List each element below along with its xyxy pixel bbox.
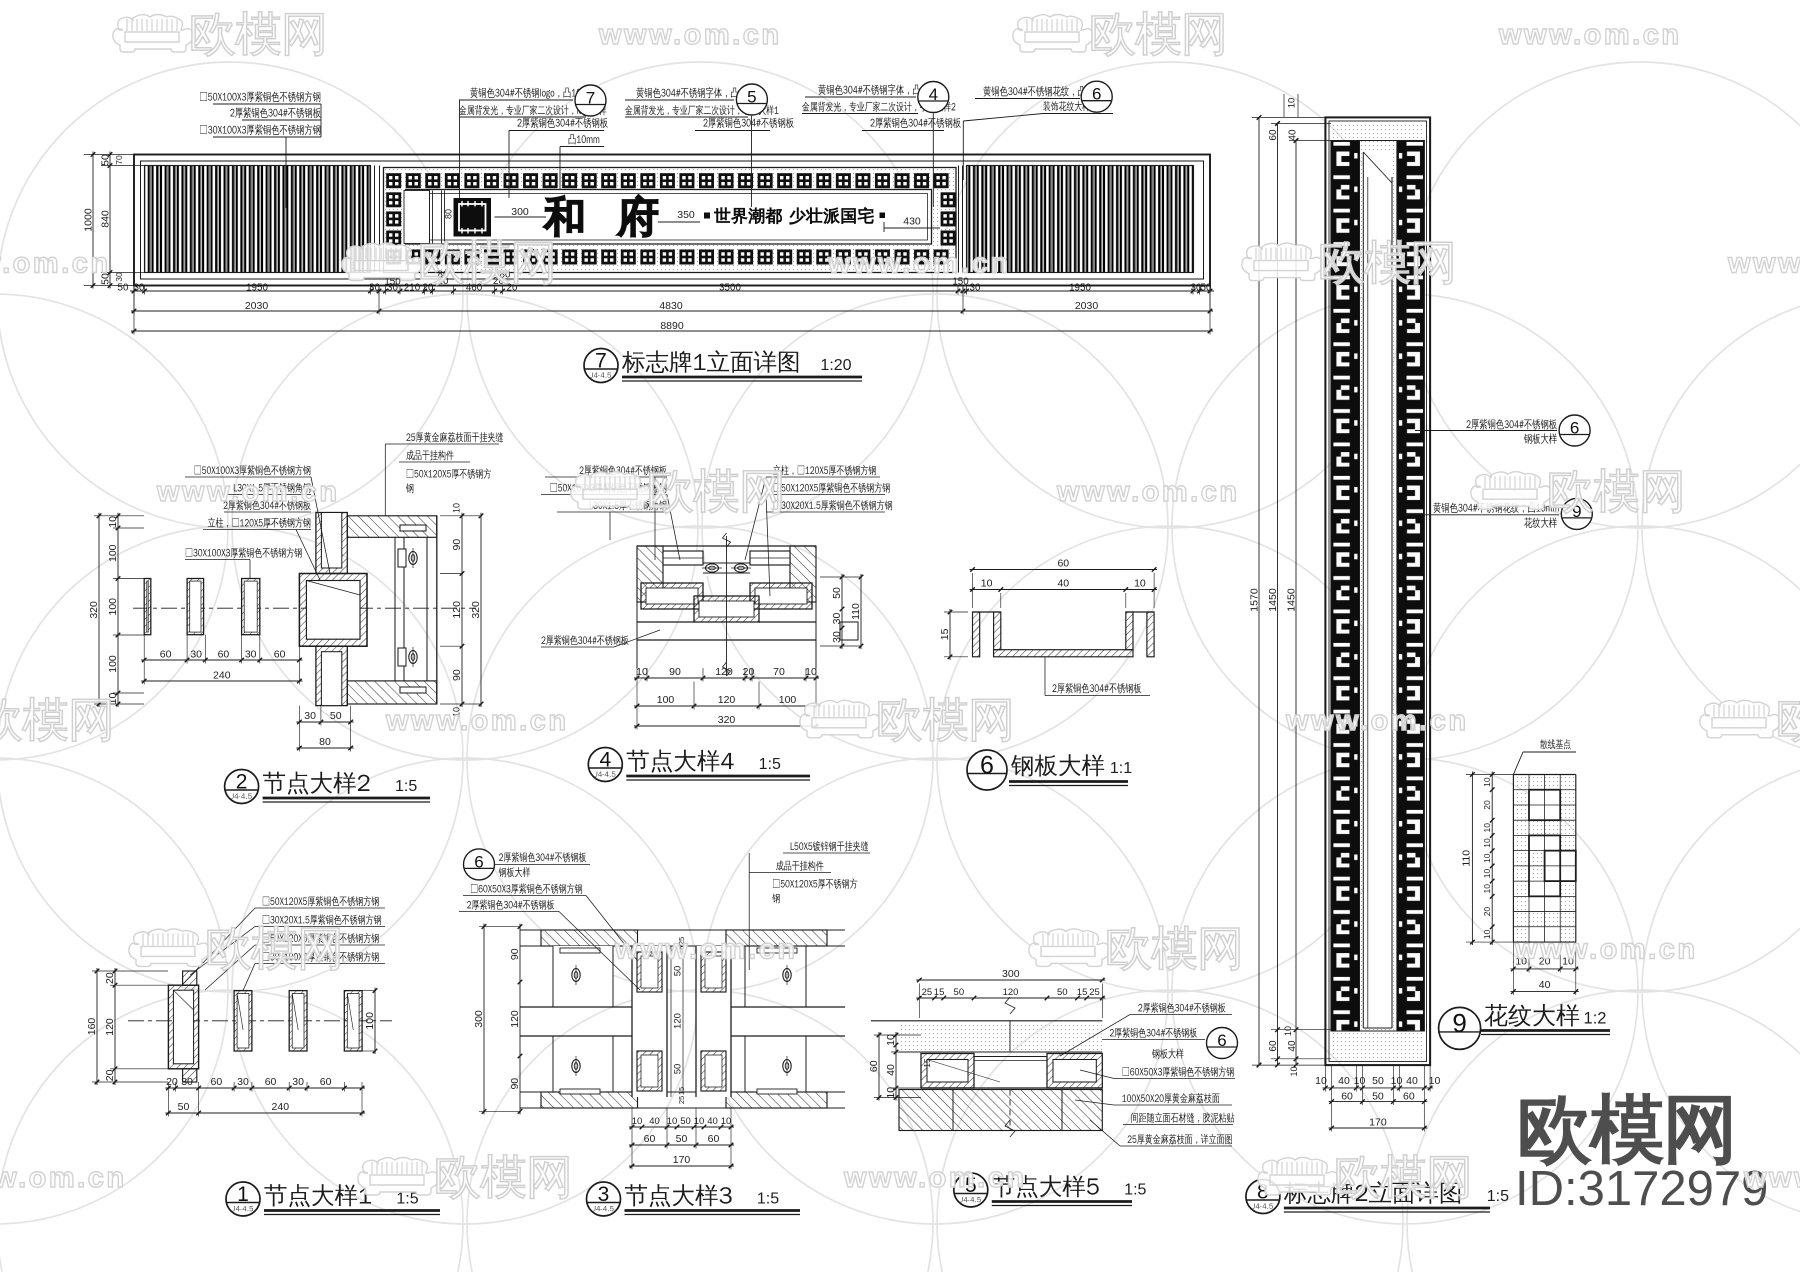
sign1 logo plate (black square with maze) [454,198,492,237]
svg-text:30: 30 [134,283,145,294]
sign1 motif column left [386,192,401,207]
svg-text:120: 120 [672,1013,683,1029]
steel plate label [1044,657,1046,696]
svg-text:60: 60 [1268,1040,1279,1052]
svg-text:300: 300 [1002,968,1020,980]
steel plate profile [973,611,1001,613]
detail5 stone base [899,1090,1102,1131]
detail4 callouts left [580,465,667,476]
svg-text:110: 110 [850,603,862,620]
dim 430 [883,222,885,232]
sign2 fret strip right [1397,141,1425,1032]
svg-text:15: 15 [939,628,951,640]
svg-text:www.om.cn: www.om.cn [0,1162,127,1194]
title block 3 [587,1182,621,1216]
detail2 upper channel [316,513,347,574]
title block 7: sign1 elevation [584,349,618,383]
callout bubble 4 [918,82,949,113]
leader group 4 [932,114,934,208]
detail4 wall right [790,546,816,602]
svg-text:www.om.cn: www.om.cn [1727,248,1800,280]
detail5 stone top band [871,1020,1102,1022]
svg-text:50: 50 [831,587,843,599]
dim 300 between logo and characters [495,216,547,218]
svg-text:www.om.cn: www.om.cn [385,705,569,737]
svg-text:10: 10 [981,578,993,590]
title block 9: ornament detail [1439,1007,1481,1049]
watermark sofa-logo row 1 [1242,243,1322,281]
svg-text:50: 50 [100,154,112,166]
svg-text:60: 60 [708,1133,720,1145]
svg-text:6: 6 [1217,1031,1226,1050]
watermark sofa-logo row 4 [129,929,209,967]
detail3 mid beams [520,1006,632,1008]
svg-text:15: 15 [677,1087,686,1095]
detail3 right channel column [696,946,731,1097]
svg-text:10: 10 [1283,1026,1293,1036]
detail2 stone wall top [347,516,437,538]
svg-text:320: 320 [470,601,482,619]
detail5 break marks [1005,997,1015,1014]
svg-text:10: 10 [1134,578,1146,590]
svg-text:240: 240 [213,670,231,682]
callout group 7 (logo) [470,87,594,98]
svg-text:320: 320 [718,714,736,726]
svg-text:10: 10 [667,1116,678,1127]
detail4 right channel [750,583,812,609]
svg-text:1:5: 1:5 [1124,1182,1146,1199]
sign2 bottom cap stipple [1331,1031,1425,1059]
svg-text:6: 6 [1570,418,1579,437]
svg-text:50: 50 [178,1101,190,1113]
svg-text:20: 20 [166,1076,178,1088]
detail4 horizontal bolts [702,560,722,576]
svg-text:20: 20 [104,972,116,984]
svg-text:50: 50 [1372,1091,1384,1103]
callout group 4 (font2) [818,84,944,95]
detail2 hanger bolts [405,548,421,568]
svg-text:10: 10 [721,1116,732,1127]
sign1 motif row top [386,173,401,188]
title block 8: sign2 elevation [1246,1180,1280,1214]
svg-text:50: 50 [676,1133,688,1145]
svg-text:30: 30 [190,649,202,661]
detail3 bottom dims [629,1126,734,1128]
svg-text:15: 15 [1077,987,1088,998]
svg-text:60: 60 [1341,1091,1353,1103]
svg-text:6: 6 [474,852,483,871]
svg-text:80: 80 [444,209,454,219]
svg-text:120: 120 [715,666,733,678]
title block 5 [954,1173,988,1207]
svg-text:60: 60 [265,1076,277,1088]
svg-text:4830: 4830 [659,300,683,312]
detail2 right dim chain [461,513,463,707]
svg-text:1:5: 1:5 [757,1191,779,1208]
svg-text:100: 100 [657,694,675,706]
detail5 metal assembly [921,1054,974,1089]
svg-text:www.om.cn: www.om.cn [156,476,340,508]
svg-text:120: 120 [509,1010,521,1028]
detail2 wall verticals [394,537,396,681]
svg-text:25: 25 [922,987,933,998]
svg-text:10: 10 [885,1087,897,1099]
detail2 bottom dim chain [141,659,302,661]
svg-text:15: 15 [922,1058,932,1068]
watermark sofa-logo row 1 [342,243,422,281]
dim 350 [658,221,700,223]
sign1 motif row bottom [386,250,401,265]
detail1 bottom dims [165,1087,365,1089]
svg-text:1:20: 1:20 [820,357,851,374]
svg-text:5: 5 [747,87,756,106]
detail4 center plate [694,596,759,622]
watermark sofa-logo row 2 [1471,472,1551,510]
svg-text:60: 60 [1057,558,1069,570]
svg-text:3: 3 [598,1183,610,1206]
ornament grid heavy outlines [1529,790,1560,820]
svg-text:1:5: 1:5 [1487,1188,1509,1205]
watermark sofa-logo row 3 [1700,700,1780,738]
callout group 5 (font1) [636,87,762,98]
watermark sofa-logo row 4 [1029,929,1109,967]
detail3 bolts [568,965,584,985]
svg-text:40: 40 [1539,979,1551,991]
svg-text:15: 15 [934,987,945,998]
svg-text:3500: 3500 [719,283,741,294]
sign2 bottom dimension rows [1322,1087,1433,1089]
svg-text:80: 80 [319,736,331,748]
detail1 main post [168,985,198,1069]
svg-text:10: 10 [805,666,817,678]
sign1 character 和 [544,196,582,236]
sign1 central decorated band [384,168,957,273]
svg-text:1950: 1950 [1069,283,1091,294]
svg-text:10: 10 [1482,929,1492,939]
svg-text:40: 40 [1406,1075,1418,1087]
sign1 dimension row 2 [131,310,1213,312]
svg-text:50: 50 [954,987,965,998]
detail1 battens [234,991,252,1051]
svg-text:10: 10 [885,1034,897,1046]
svg-text:6: 6 [980,751,994,779]
svg-text:10: 10 [1482,823,1492,833]
svg-text:www.om.cn: www.om.cn [614,933,798,965]
svg-text:70: 70 [773,666,785,678]
sign1 extension lines below [133,286,135,295]
svg-text:www.om.cn: www.om.cn [1056,476,1240,508]
svg-text:120: 120 [451,601,463,619]
svg-text:100: 100 [107,598,119,616]
sign2 column outer frame [1325,117,1430,1065]
detail2 stone wall bottom [347,681,437,704]
svg-text:40: 40 [649,1116,660,1127]
ornament pattern grid [1513,775,1575,943]
svg-text:120: 120 [1003,987,1019,998]
svg-text:10: 10 [1429,1075,1441,1087]
site logo text [1522,1094,1730,1165]
sign1 slogan text [714,208,781,224]
ornament grid label [1540,739,1571,749]
svg-text:9: 9 [1452,1008,1466,1038]
sign2 left dimension lines [1258,117,1260,1065]
svg-text:60: 60 [320,1076,332,1088]
sign1 panel divider lines [374,166,376,273]
svg-text:840: 840 [100,210,112,228]
leaders group 7 [459,100,461,198]
svg-text:50: 50 [672,1064,683,1075]
svg-text:170: 170 [1369,1117,1387,1129]
svg-text:40: 40 [1287,1040,1298,1052]
title block 1 [226,1182,260,1216]
leader group 6 [963,114,1043,122]
svg-text:160: 160 [86,1018,98,1036]
svg-text:10: 10 [452,503,462,513]
sign1 dimension row 3 [131,330,1213,332]
svg-text:60: 60 [160,649,172,661]
svg-text:170: 170 [673,1154,691,1166]
sign1 inner field frame [406,190,932,245]
detail1 callouts [263,896,379,907]
svg-text:www.om.cn: www.om.cn [1514,933,1698,965]
svg-text:320: 320 [88,601,100,619]
svg-text:50: 50 [1057,987,1068,998]
detail3 callouts left [464,849,495,880]
detail3 left dims [483,924,485,1115]
sign1 elevation outer frame [134,155,1210,286]
detail2 small clip plates [400,525,426,531]
detail5 top dims [916,979,1105,981]
svg-text:30: 30 [831,613,843,625]
sign1 slogan bullet [704,213,710,219]
callout 6 steel plate (column right) [1415,430,1462,432]
svg-text:20: 20 [1482,800,1492,810]
callout bubble 6 [1081,81,1112,112]
svg-text:30: 30 [181,1076,193,1088]
svg-text:30: 30 [237,1076,249,1088]
svg-text:1450: 1450 [1267,588,1279,612]
callout group A (left) [200,91,320,102]
leader group 5 [751,116,753,207]
svg-text:2: 2 [236,770,248,793]
svg-text:7: 7 [595,349,607,372]
svg-text:1:2: 1:2 [1584,1009,1607,1027]
svg-text:90: 90 [509,1078,521,1090]
watermark sofa-logo row 3 [800,700,880,738]
svg-text:50: 50 [672,966,683,977]
detail3 left channel column [632,946,667,1097]
detail4 wall left [637,546,663,602]
svg-text:10: 10 [1482,884,1492,894]
svg-text:10: 10 [1289,1066,1299,1076]
detail2 callouts right [406,432,503,443]
svg-text:6: 6 [1092,85,1101,104]
svg-text:100: 100 [107,655,119,673]
svg-text:10: 10 [1482,869,1492,879]
callout group 6 (ornament) [983,86,1109,97]
svg-text:90: 90 [451,669,463,681]
svg-text:1:5: 1:5 [396,1191,418,1208]
svg-text:30: 30 [245,649,257,661]
sign1 right slat panel [967,166,1194,273]
svg-text:60: 60 [218,649,230,661]
leader A [285,137,287,208]
sign1 motif column right [941,192,956,207]
svg-text:30: 30 [292,1076,304,1088]
svg-text:4: 4 [599,748,611,771]
sign1 left vertical dims [92,152,94,289]
detail4 left channel [641,583,703,609]
sign2 center channel [1360,141,1397,1032]
svg-text:50: 50 [118,283,129,294]
svg-text:ID:3172979: ID:3172979 [1515,1162,1768,1216]
svg-text:100: 100 [779,694,797,706]
svg-text:60: 60 [1268,129,1279,141]
svg-text:1950: 1950 [246,283,268,294]
title block 6 [967,750,1007,790]
detail4 right dims [841,574,843,649]
svg-text:1:5: 1:5 [395,778,417,795]
detail1 left dims [96,968,98,1085]
svg-text:30: 30 [387,283,398,294]
svg-text:60: 60 [1403,1091,1415,1103]
svg-text:www.om.cn: www.om.cn [598,19,782,51]
detail4 top plates [637,545,816,547]
svg-text:7: 7 [586,88,595,107]
svg-text:120: 120 [718,694,736,706]
svg-text:90: 90 [451,539,463,551]
detail2 bottom-center dims 30 50 80 [296,721,353,723]
svg-text:30: 30 [831,631,843,643]
svg-text:10: 10 [1391,1075,1403,1087]
svg-text:240: 240 [272,1101,290,1113]
sign1 character 府 [618,195,657,236]
detail3 wall posts [553,946,613,1006]
svg-text:www.om.cn: www.om.cn [0,248,111,280]
detail2 left dim chain [98,513,100,707]
svg-text:60: 60 [211,1076,223,1088]
svg-text:1570: 1570 [1249,588,1261,612]
svg-text:20: 20 [1482,907,1492,917]
svg-text:50: 50 [330,710,342,722]
sign2 blade [1363,152,1392,1028]
svg-text:1000: 1000 [83,208,95,232]
watermark sofa-logo row 2 [571,472,651,510]
detail3 top wall [541,930,638,946]
svg-text:www.om.cn: www.om.cn [843,1162,1027,1194]
callout bubble 7 [575,85,606,116]
svg-text:1:5: 1:5 [759,756,781,773]
detail1 right dim 100 [374,988,376,1054]
sign1 dimension row 1 [130,290,1214,292]
detail3 bottom wall [541,1092,638,1108]
ornament grid left dims [1471,772,1473,946]
svg-text:300: 300 [511,206,529,218]
svg-text:8890: 8890 [660,320,684,332]
svg-text:25: 25 [1089,987,1100,998]
svg-text:2030: 2030 [1075,300,1099,312]
title block 4 [588,748,622,782]
detail5 left dims [878,1032,880,1101]
ornament grid bottom dims [1510,968,1578,970]
svg-text:10: 10 [694,1116,705,1127]
detail3 clip plates [560,948,600,953]
sign2 top cap stipple [1331,123,1425,141]
svg-text:40: 40 [1057,578,1069,590]
svg-text:60: 60 [644,1133,656,1145]
svg-text:10: 10 [107,516,119,528]
svg-text:100: 100 [364,1012,376,1030]
detail1 post top tab [183,971,197,985]
detail2 center line [133,607,476,609]
svg-text:40: 40 [707,1116,718,1127]
svg-text:110: 110 [1461,850,1473,867]
svg-text:1450: 1450 [1286,588,1298,612]
sign1 field left white panel [404,191,430,244]
detail2 battens (3 small) [144,579,151,635]
sign2 fret strip left [1331,141,1360,1032]
svg-text:50: 50 [1372,1075,1384,1087]
svg-text:10: 10 [1482,853,1492,863]
svg-text:10: 10 [1286,98,1297,109]
detail1 center line [128,1020,392,1022]
svg-text:70: 70 [114,155,124,165]
steel plate dims [970,569,1158,571]
svg-text:350: 350 [677,209,695,221]
svg-text:30: 30 [114,272,124,282]
svg-text:1:1: 1:1 [1110,760,1132,777]
svg-text:300: 300 [473,1010,485,1028]
watermark sofa-logo row 5 [358,1158,438,1196]
svg-text:460: 460 [466,283,483,294]
sign1 left slat panel [145,166,371,273]
svg-text:120: 120 [104,1018,116,1036]
detail2 lower channel [316,646,347,705]
watermark sofa-logo row 5 [1258,1158,1338,1196]
detail2 main post section [299,574,367,647]
svg-text:www.om.cn: www.om.cn [1285,705,1469,737]
svg-text:www.om.cn: www.om.cn [1743,1162,1800,1194]
svg-text:20: 20 [104,1069,116,1081]
svg-text:40: 40 [885,1064,897,1076]
svg-text:100: 100 [107,544,119,562]
svg-text:430: 430 [903,216,921,228]
svg-text:www.om.cn: www.om.cn [1498,19,1682,51]
svg-text:90: 90 [509,948,521,960]
svg-text:10: 10 [1482,838,1492,848]
svg-text:www.om.cn: www.om.cn [827,248,1011,280]
svg-text:50: 50 [680,1116,691,1127]
svg-text:90: 90 [669,666,681,678]
callout 9 ornament (column right) [1404,514,1430,516]
svg-text:30: 30 [970,283,981,294]
detail4 bottom dim chains [634,677,819,679]
svg-text:40: 40 [1338,1075,1350,1087]
title block 2 [225,770,259,804]
svg-text:60: 60 [274,649,286,661]
watermark sofa-logo row 0 [1013,15,1093,53]
svg-text:1: 1 [237,1183,249,1206]
svg-text:10: 10 [636,666,648,678]
svg-text:10: 10 [632,1116,643,1127]
svg-text:20: 20 [743,666,755,678]
svg-text:10: 10 [1354,1075,1366,1087]
svg-text:210: 210 [404,283,421,294]
svg-text:60: 60 [868,1060,880,1072]
detail1 post bottom tab [183,1069,197,1082]
callout bubble 5 [736,84,767,115]
detail3 callouts right [791,841,869,851]
